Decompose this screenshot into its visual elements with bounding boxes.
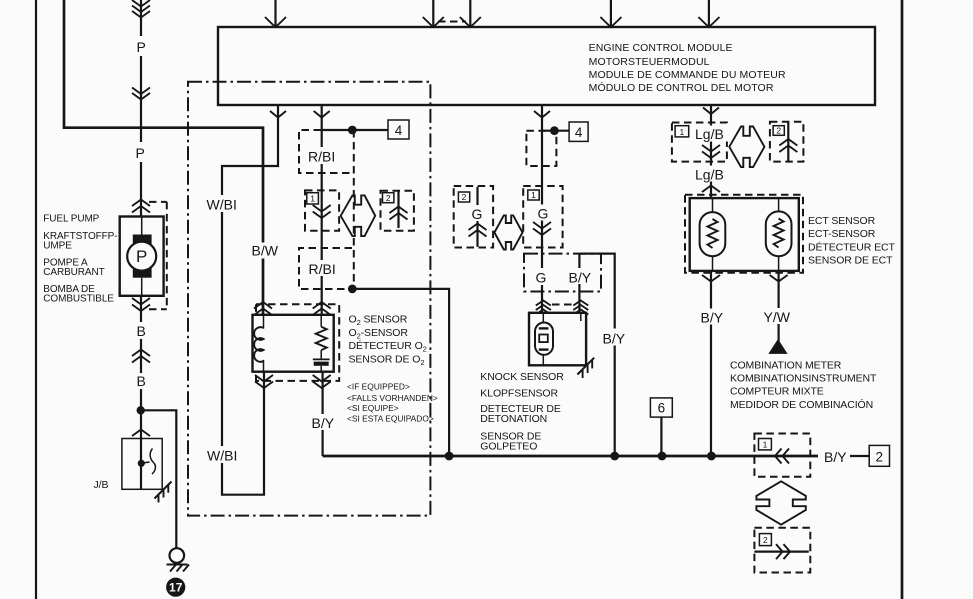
connector chevrons below pump (132, 298, 150, 311)
ground G17 (167, 548, 190, 571)
junction dot 4-right (550, 126, 559, 135)
combination meter triangle (768, 339, 787, 354)
svg-text:B/Y: B/Y (701, 309, 724, 325)
connector chevrons bus (775, 449, 789, 464)
bottom connector box 2 (754, 528, 810, 573)
if-equipped dashed wire (353, 130, 355, 289)
wire P (140, 0, 142, 217)
mating arrow ECT (729, 127, 764, 168)
svg-text:P: P (136, 247, 147, 266)
svg-text:<IF EQUIPPED>: <IF EQUIPPED> (347, 382, 410, 392)
connector chevrons below O2 right (313, 375, 331, 388)
svg-text:SENSOR DE O2: SENSOR DE O2 (349, 354, 425, 368)
ground bus B/Y (323, 455, 818, 458)
label G right (536, 205, 551, 222)
wire B/Y shield (578, 254, 580, 313)
svg-text:MOTORSTEUERMODUL: MOTORSTEUERMODUL (589, 56, 710, 68)
svg-text:W/BI: W/BI (207, 448, 237, 464)
svg-text:J/B: J/B (94, 479, 109, 491)
svg-text:COMBINATION METER: COMBINATION METER (730, 360, 842, 372)
label Lg/B in box (694, 126, 728, 143)
ECT thermistor right (766, 198, 792, 271)
svg-text:2: 2 (876, 449, 884, 464)
svg-text:Lg/B: Lg/B (695, 126, 724, 142)
connector 2 box (869, 445, 889, 466)
connector chevrons ECT pin2 side (779, 139, 797, 152)
connector chevrons on wire P mid (132, 88, 150, 100)
wire Y/W (777, 271, 779, 341)
label P upper (133, 36, 150, 56)
wire into J/B (140, 410, 142, 463)
svg-text:W/BI: W/BI (207, 197, 237, 213)
page border right (901, 0, 904, 599)
ECT sensor labels (808, 215, 895, 267)
svg-text:1: 1 (310, 194, 315, 204)
connector chevron J/B (132, 430, 150, 437)
svg-text:P: P (137, 39, 146, 55)
bus junction dot 2 (610, 452, 619, 461)
O2 connector box 1 (305, 190, 339, 230)
combination meter labels (730, 360, 877, 412)
connector 4 box left (388, 120, 409, 139)
svg-text:MEDIDOR DE COMBINACIÓN: MEDIDOR DE COMBINACIÓN (730, 398, 873, 411)
tap wire to connector 4 right (542, 130, 569, 132)
bus junction dot 4 (707, 452, 716, 461)
connector chevron ECT out right (770, 275, 788, 282)
O2 sensor box (253, 315, 334, 372)
svg-text:KNOCK SENSOR: KNOCK SENSOR (480, 371, 564, 383)
fuel pump motor M (127, 217, 156, 296)
ECM box U1 (218, 27, 875, 105)
svg-text:ECT SENSOR: ECT SENSOR (808, 215, 876, 227)
svg-text:COMPTEUR MIXTE: COMPTEUR MIXTE (730, 386, 824, 398)
svg-text:B/Y: B/Y (824, 449, 847, 465)
knock connector dashes (552, 304, 572, 306)
wire B/W (64, 0, 263, 315)
svg-text:2: 2 (776, 126, 781, 136)
svg-text:DÉTECTEUR O2: DÉTECTEUR O2 (349, 339, 427, 354)
svg-text:ECT-SENSOR: ECT-SENSOR (808, 228, 876, 240)
connector chevrons into knock right (573, 301, 588, 315)
junction dot 4-left (348, 126, 357, 135)
svg-text:<FALLS VORHANDEN>: <FALLS VORHANDEN> (347, 393, 438, 403)
fuel pump labels (43, 214, 117, 305)
bottom connector box 1 (754, 434, 810, 477)
connector 4 box right (569, 122, 588, 141)
O2 sensor dashed box (256, 304, 339, 381)
G B/Y junction box (524, 254, 601, 292)
connector chevrons on wire P top (132, 0, 150, 18)
label G in box (534, 268, 550, 286)
svg-text:DÉTECTEUR ECT: DÉTECTEUR ECT (808, 240, 895, 253)
dashed bracket between top wires (438, 21, 466, 23)
svg-text:MODULE DE COMMANDE DU MOTEUR: MODULE DE COMMANDE DU MOTEUR (589, 69, 786, 81)
wire B/Y ECT (710, 271, 712, 456)
svg-text:6: 6 (658, 401, 666, 416)
wire B/Y from O2 (322, 372, 324, 456)
ECM top wire 4 (600, 0, 621, 27)
O2 connector box 2 (381, 191, 414, 231)
wire R/BI (314, 105, 330, 315)
ECT connector box 1 (672, 123, 727, 162)
label Lg/B below (694, 166, 729, 183)
svg-text:UMPE: UMPE (43, 241, 72, 252)
svg-text:ENGINE CONTROL MODULE: ENGINE CONTROL MODULE (589, 42, 733, 54)
connector chevron into ECT (702, 186, 720, 193)
connector 4 tap box right (526, 131, 556, 166)
svg-text:2: 2 (763, 535, 768, 545)
O2 sensing element (313, 315, 330, 372)
R/BI connector box upper (299, 130, 352, 173)
svg-text:KLOPFSENSOR: KLOPFSENSOR (480, 388, 558, 400)
knock sensor element (535, 313, 581, 366)
wire to ground 17 (141, 410, 177, 548)
knock connector box 1 (523, 186, 562, 248)
R/BI connector box lower (299, 248, 352, 289)
label W/BI upper (205, 195, 241, 213)
junction dot bypass (348, 285, 357, 294)
label R/BI upper (306, 147, 341, 165)
svg-text:B: B (137, 373, 146, 389)
ECM top wire 3 (460, 0, 481, 27)
label B upper (133, 322, 149, 339)
svg-text:G: G (472, 206, 483, 222)
mating arrow vertical (756, 481, 805, 524)
svg-text:SENSOR DE ECT: SENSOR DE ECT (808, 255, 893, 267)
knock sensor box (529, 313, 586, 366)
svg-text:GOLPETEO: GOLPETEO (480, 440, 537, 452)
J/B label (94, 479, 109, 491)
svg-text:1: 1 (531, 190, 536, 200)
svg-text:4: 4 (395, 123, 403, 138)
label R/BI lower (306, 260, 341, 277)
O2 heater coil (254, 315, 263, 372)
fuel pump connector chevrons top (132, 200, 150, 213)
label B/Y O2 (310, 414, 338, 431)
ground at knock sensor (577, 358, 594, 378)
ECT sensor box (690, 198, 799, 271)
ECM top wire 5 (698, 0, 719, 27)
connector chevron ECT out left (702, 275, 720, 282)
svg-text:2: 2 (462, 192, 467, 202)
J/B switch contact (138, 449, 156, 490)
svg-text:4: 4 (575, 125, 583, 140)
svg-text:1: 1 (763, 440, 768, 450)
knock sensor labels (480, 371, 564, 452)
svg-text:FUEL PUMP: FUEL PUMP (43, 214, 99, 225)
svg-text:COMBUSTIBLE: COMBUSTIBLE (43, 294, 114, 305)
label P lower (133, 142, 150, 162)
connector chevrons wire B (132, 350, 150, 363)
label B/Y knock (601, 329, 631, 347)
fuel pump box (120, 217, 164, 296)
connector chevrons Lg/B (702, 145, 720, 158)
mating arrow O2 (341, 195, 376, 236)
if-equipped notes (347, 382, 438, 424)
connector chevrons into O2 left (254, 302, 272, 315)
tap wire to connector 4 left (322, 129, 388, 131)
ECM labels (589, 42, 786, 94)
mating arrow knock (494, 215, 522, 249)
ECT thermistor left (700, 198, 726, 271)
connector chevrons into knock left (536, 301, 551, 315)
O2 sensor labels (349, 314, 427, 368)
bus junction dot 3 (658, 452, 667, 461)
wire W/BI (222, 105, 286, 495)
svg-text:Y/W: Y/W (764, 309, 791, 325)
wire bypass to ground bus (352, 289, 449, 456)
svg-text:DETONATION: DETONATION (480, 413, 547, 425)
ground at J/B (155, 482, 172, 503)
ECM top wire 1 (265, 0, 286, 27)
label B/Y ECT (699, 309, 727, 326)
svg-text:1: 1 (680, 127, 685, 137)
label B/Y bus (822, 448, 850, 465)
svg-text:G: G (538, 206, 549, 222)
connector 6 box (650, 398, 672, 456)
label B lower (133, 373, 149, 389)
label W/BI lower (205, 446, 241, 464)
svg-text:G: G (536, 270, 547, 286)
wire B/Y branch to bus (579, 254, 614, 456)
wire G knock (534, 105, 550, 313)
J/B box (122, 439, 162, 490)
wire left vertical (35, 0, 37, 599)
svg-text:MÓDULO DE CONTROL DEL MOTOR: MÓDULO DE CONTROL DEL MOTOR (589, 81, 774, 94)
wire to connector 2 (849, 455, 869, 457)
svg-text:KOMBINATIONSINSTRUMENT: KOMBINATIONSINSTRUMENT (730, 373, 877, 385)
ground ref 17 badge (166, 578, 185, 597)
svg-text:CARBURANT: CARBURANT (43, 267, 104, 278)
svg-text:17: 17 (169, 581, 183, 595)
wire Lg/B (703, 105, 719, 212)
connector chevrons knock pin2 side (469, 224, 487, 237)
svg-text:B/Y: B/Y (603, 331, 626, 347)
svg-text:2: 2 (386, 193, 391, 203)
label B/Y in box (567, 268, 596, 286)
bus junction dot 1 (445, 452, 454, 461)
connector chevrons below O2 left (255, 375, 273, 388)
svg-text:R/BI: R/BI (308, 149, 335, 165)
knock connector box 2 (454, 186, 493, 248)
ECT connector box 2 (770, 122, 804, 162)
fuel pump connector dashes (149, 202, 167, 309)
label B/W (250, 243, 280, 259)
svg-text:<SI ESTA EQUIPADO>: <SI ESTA EQUIPADO> (347, 414, 434, 424)
wire B (140, 296, 142, 411)
svg-text:Lg/B: Lg/B (695, 166, 724, 182)
svg-text:P: P (136, 145, 145, 161)
connector chevrons box 2 side (776, 544, 790, 559)
connector chevrons knock pin1 (533, 222, 551, 235)
svg-text:B/Y: B/Y (312, 415, 335, 431)
junction dot B (137, 406, 145, 414)
svg-text:B/Y: B/Y (569, 270, 592, 286)
ECM top wire 2 (423, 0, 444, 27)
svg-text:<SI EQUIPE>: <SI EQUIPE> (347, 403, 399, 413)
connector chevrons O2 pin2 side (390, 207, 408, 220)
svg-text:R/BI: R/BI (309, 261, 336, 277)
svg-text:B/W: B/W (252, 243, 279, 259)
harness dashed box (188, 82, 430, 516)
label G left (470, 205, 485, 222)
svg-text:B: B (137, 323, 146, 339)
ECT sensor dashed box (685, 195, 803, 273)
connector chevrons into O2 right (313, 302, 331, 315)
label Y/W (762, 308, 793, 325)
connector chevrons O2 pin1 (313, 205, 331, 218)
